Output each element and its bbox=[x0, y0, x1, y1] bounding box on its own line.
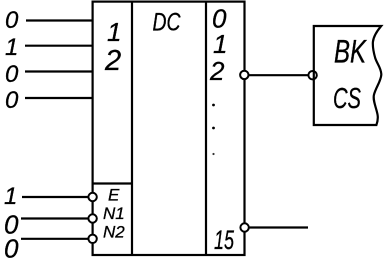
svg-text:0: 0 bbox=[5, 61, 19, 88]
ellipsis dot 2 bbox=[212, 127, 215, 130]
wire input A3 bbox=[25, 97, 93, 99]
svg-text:CS: CS bbox=[333, 83, 361, 115]
inversion bubble BK input CS bbox=[308, 71, 316, 79]
wire enable N1 bbox=[21, 217, 88, 219]
decoder U1 enable section divider bbox=[93, 182, 132, 184]
inversion bubble output 2 bbox=[240, 71, 248, 79]
svg-text:1: 1 bbox=[4, 183, 17, 210]
wire output 15 bbox=[250, 226, 309, 228]
svg-text:E: E bbox=[108, 186, 120, 205]
wire output 2 to BK bbox=[249, 74, 308, 76]
ellipsis dot 3 bbox=[212, 153, 214, 155]
svg-text:1: 1 bbox=[5, 34, 18, 61]
svg-text:BK: BK bbox=[334, 34, 367, 70]
wire input A1 bbox=[25, 45, 93, 47]
wire enable N2 bbox=[21, 238, 88, 240]
svg-text:DC: DC bbox=[153, 9, 182, 37]
svg-text:2: 2 bbox=[209, 56, 225, 86]
svg-text:2: 2 bbox=[104, 45, 121, 77]
ellipsis dot 1 bbox=[212, 104, 215, 107]
wire input A2 bbox=[25, 70, 93, 72]
decoder U1 output column divider bbox=[205, 2, 207, 255]
inversion bubble pin E bbox=[88, 193, 96, 201]
inversion bubble pin N1 bbox=[88, 214, 96, 222]
svg-text:N2: N2 bbox=[103, 223, 125, 242]
svg-text:0: 0 bbox=[4, 234, 19, 264]
wire input A0 bbox=[26, 19, 93, 21]
inversion bubble pin N2 bbox=[88, 235, 96, 243]
svg-text:1: 1 bbox=[107, 17, 121, 47]
svg-text:1: 1 bbox=[213, 29, 227, 59]
decoder U1 left column divider bbox=[131, 2, 133, 255]
svg-text:0: 0 bbox=[5, 87, 19, 114]
BK block outline with torn right edge bbox=[314, 26, 382, 125]
svg-text:0: 0 bbox=[5, 7, 19, 34]
decoder U1 outline bbox=[93, 2, 245, 255]
svg-text:N1: N1 bbox=[103, 204, 125, 223]
svg-text:15: 15 bbox=[214, 225, 235, 255]
inversion bubble output 15 bbox=[240, 223, 248, 231]
wire enable E bbox=[22, 196, 88, 198]
